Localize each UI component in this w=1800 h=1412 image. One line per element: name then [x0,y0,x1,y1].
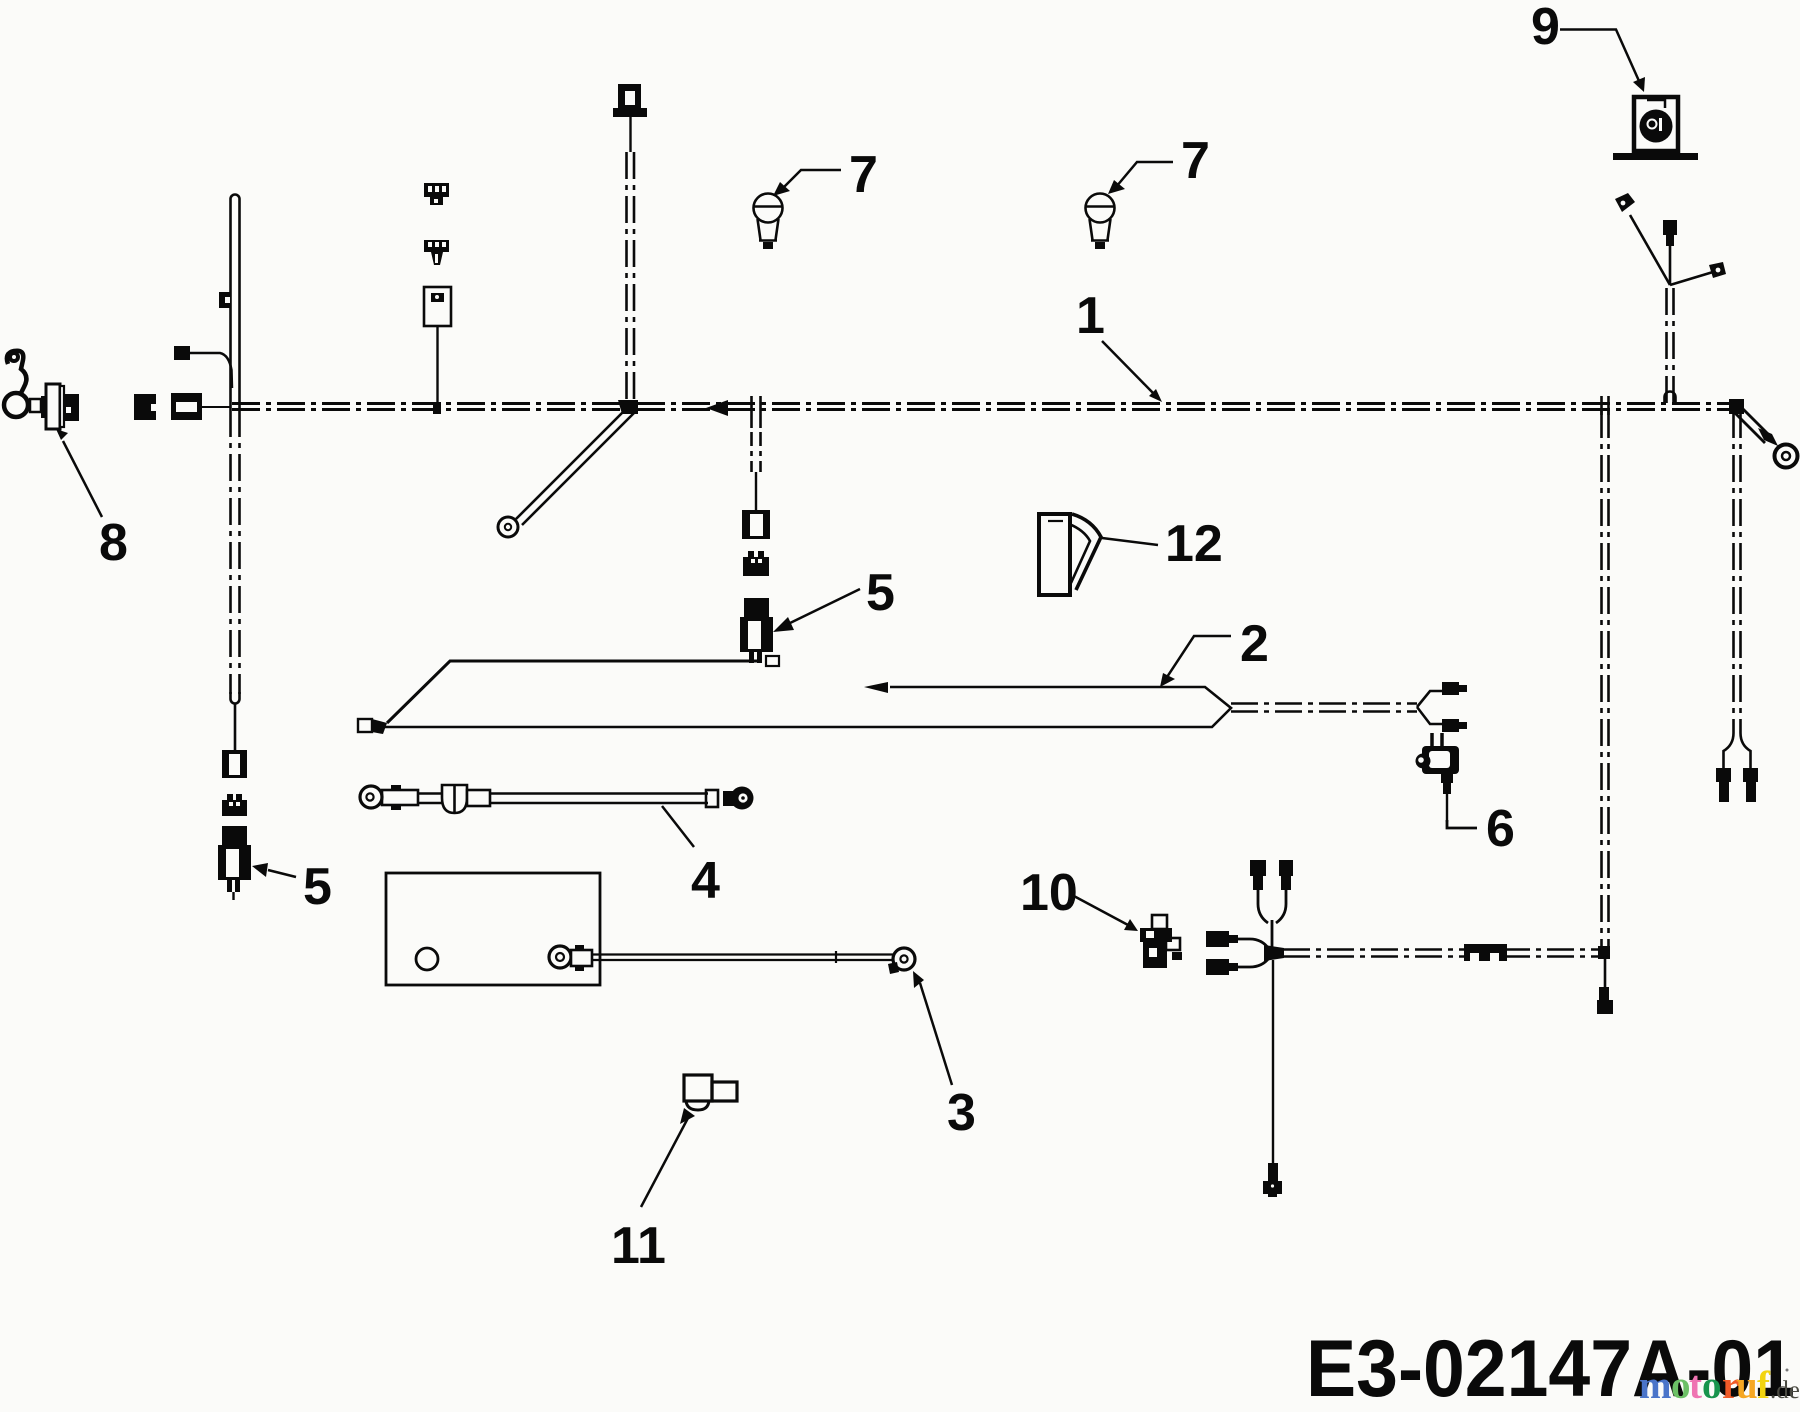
rubber boot 12 [1039,514,1101,595]
svg-text:11: 11 [611,1217,666,1275]
small connector (left stack) [222,794,247,816]
svg-text:7: 7 [1181,132,1210,190]
label 5 (left) [252,858,332,916]
relay 6 [1416,733,1478,828]
cable 2 Y-split with two spade terminals [1417,682,1467,732]
connector stack on left cable: upper connector [222,750,247,778]
svg-text:o: o [1702,1364,1722,1407]
drop cable below harness at x=756 [752,396,761,512]
hour meter 9 [1613,97,1698,157]
connector with window left of harness [171,393,231,420]
bulb 7 (left) [753,194,783,250]
relay box on line x=436 [424,287,451,414]
small clip on left cable [219,292,230,308]
svg-text:4: 4 [691,852,720,910]
label 7 (right) [1108,132,1210,194]
svg-text:12: 12 [1165,515,1223,573]
label 12 [1102,515,1223,573]
diagonal cable to ring terminal (from x=628 junction) [498,407,634,537]
elbow connector 11 [641,1075,737,1207]
harness direction arrow [706,400,728,416]
svg-text:8: 8 [99,514,128,572]
solenoid 5 (left) [218,826,251,900]
svg-text:9: 9 [1531,0,1560,56]
label 1 [1076,287,1162,402]
wire to connector stack [234,703,237,752]
motoruf.de watermark [1639,1364,1800,1407]
left cable bottom U-joint [231,692,240,704]
svg-text:7: 7 [849,146,878,204]
ignition switch 8 with key [4,351,79,429]
pigtail cable x=1670 (top right) [1615,193,1726,403]
cable 2 : long wedge bundle [385,682,1231,727]
svg-text:1: 1 [1076,287,1105,345]
solenoid 5 (right) [740,598,773,663]
switch 10 [1140,915,1182,968]
vertical dash-dot cable x=630 [625,152,628,403]
label 3 [913,971,976,1142]
svg-text:t: t [1689,1364,1702,1407]
svg-text:m: m [1639,1364,1672,1407]
svg-text:5: 5 [866,564,895,622]
right vertical cable x=1737 with two plugs [1716,411,1758,802]
black plug left of harness [134,394,156,420]
svg-text:5: 5 [303,858,332,916]
bulb 7 (right) [1085,194,1115,250]
label 8 [56,429,128,572]
label 5 (right) [773,564,895,632]
left vertical cable lower dash-dot section [229,410,232,694]
label 9 [1531,0,1645,92]
label 2 [1160,615,1269,687]
connector stack column x=436 [424,183,449,205]
left vertical cable (solid double line, rounded top) [231,195,240,411]
svg-text:f: f [1757,1364,1771,1407]
wire down from junction to plug [1263,960,1282,1197]
label 7 (left) [773,146,878,204]
junction blob at x=628 [618,400,638,414]
svg-text:.de: .de [1770,1377,1800,1404]
connector above solenoid 5 (right) [742,510,770,539]
wire Y with two spade terminals (part 10 area) [1206,931,1284,975]
svg-text:3: 3 [947,1084,976,1142]
svg-text:10: 10 [1020,864,1078,922]
svg-text:u: u [1736,1364,1758,1407]
cable 2 right dash-dot section [1231,704,1417,712]
svg-text:o: o [1671,1364,1691,1407]
horizontal dash-dot cable y=953 with fuse [1283,944,1601,961]
small connector above solenoid 5 (right) [743,551,769,576]
harness right corner + ring terminal [1729,399,1798,468]
right vertical cable x=1605 down to fuse connector [1597,396,1613,1014]
wire from solenoid 5 with ring terminal end [358,656,779,734]
label 4 [662,806,720,910]
svg-text:6: 6 [1486,800,1515,858]
svg-text:2: 2 [1240,615,1269,673]
tail connector near left cable [174,346,232,388]
battery cable 4 [360,785,754,813]
fork with two prongs above junction [1250,860,1293,947]
label 10 [1020,864,1138,931]
top-hat connector on line x=630 [613,84,647,152]
battery 3 [386,873,915,985]
wire harness 1 : main horizontal dash-dot double cable [232,404,1737,410]
